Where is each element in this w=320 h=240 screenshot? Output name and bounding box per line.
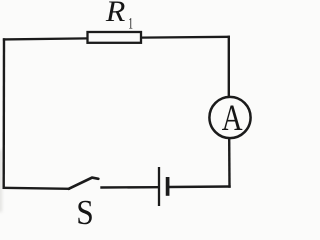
wire: battery to bottom-right corner (169, 185, 229, 188)
svg-text:A: A (222, 98, 243, 139)
wire: right vertical lower (corner to ammeter) (228, 139, 231, 187)
wire: switch fixed contact to battery (102, 186, 158, 189)
battery long plate (left) (158, 167, 160, 206)
wire: top-right horizontal (resistor to top-right corner) (142, 36, 229, 39)
svg-text:R: R (105, 0, 126, 28)
wire: left vertical (3, 39, 6, 187)
svg-text:S: S (76, 193, 94, 227)
battery short thick plate (right) (166, 177, 170, 196)
switch S blade (69, 178, 99, 189)
wire: right vertical upper (ammeter to top corner) (228, 37, 230, 97)
wire: bottom-left horizontal (corner to switch pivot) (4, 188, 69, 189)
svg-text:1: 1 (128, 14, 133, 32)
ammeter U1 circle (209, 97, 250, 138)
wire: top-left horizontal (corner to resistor) (4, 38, 87, 39)
resistor R1 (box) (88, 32, 142, 43)
